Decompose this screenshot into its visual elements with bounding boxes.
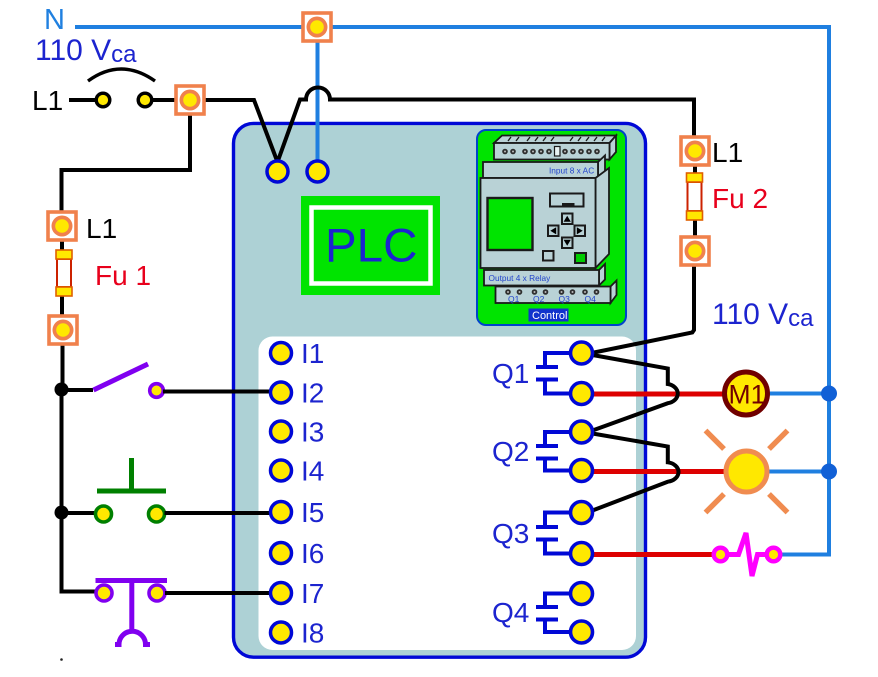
terminal D below Fu1: [49, 316, 77, 344]
terminal B after breaker: [176, 86, 204, 114]
device Control badge: [529, 309, 569, 322]
svg-text:I7: I7: [301, 578, 324, 609]
wire terminal C to fuse Fu1: [60, 240, 64, 252]
svg-text:I5: I5: [301, 497, 324, 528]
svg-text:Fu 2: Fu 2: [712, 183, 768, 214]
wire terminal D down left bus: [62, 344, 97, 592]
toggle switch blade purple: [94, 364, 149, 390]
device bottom terminal block: [611, 281, 617, 304]
svg-text:Q4: Q4: [585, 294, 597, 304]
PLC device drawing: [481, 136, 617, 304]
wire red Q2 to lamp: [592, 469, 727, 474]
svg-text:Q2: Q2: [533, 294, 545, 304]
wire chain Q1 to Q2 with hop over red: [593, 355, 678, 431]
device top face ticks: [508, 137, 605, 141]
limit switch purple: [96, 581, 168, 645]
wire chain Q2 to Q3 with hop over red: [593, 434, 679, 511]
PLC top input terminal 2: [307, 161, 328, 182]
device top terminal block top face: [494, 136, 616, 144]
svg-text:Output 4 x Relay: Output 4 x Relay: [489, 273, 552, 283]
wire blue stub M1 to N bus: [768, 392, 829, 396]
wire red Q1 to motor M1: [592, 392, 726, 397]
device arrow buttons: [548, 214, 585, 249]
wire junction to toggle switch: [62, 388, 94, 392]
node junction dot toggle branch: [55, 383, 69, 397]
toggle switch contact circle: [150, 384, 164, 398]
device input band: [598, 156, 605, 179]
wire fuse Fu2 feed down to Q1: [594, 265, 694, 353]
svg-text:Control: Control: [532, 310, 567, 322]
wire pushbutton to input I5: [165, 511, 274, 515]
input terminal I7: [271, 583, 292, 604]
wire L1 stub to breaker: [69, 98, 96, 102]
terminal F below Fu2: [681, 237, 709, 265]
PLC panel inner white terminal area: [259, 337, 637, 651]
wire toggle switch to input I2: [163, 390, 273, 394]
input terminal I5: [271, 502, 292, 523]
wire fuse Fu2 to terminal F: [693, 218, 697, 237]
svg-text:L1: L1: [86, 213, 117, 244]
relay contact Q4: [536, 583, 593, 644]
wire terminal down to fuse branch: [62, 114, 191, 212]
relay contact Q1: [536, 342, 593, 405]
device labels Q1-Q4: [508, 294, 596, 304]
stray dot bottom left: [60, 658, 63, 661]
svg-text:110 Vca: 110 Vca: [712, 298, 814, 332]
device slot panel: [550, 194, 584, 207]
svg-text:Q3: Q3: [492, 518, 529, 549]
svg-text:L1: L1: [712, 137, 743, 168]
breaker contact circles L1: [96, 93, 110, 107]
device top slot: [555, 147, 561, 157]
wire N line blue: [75, 27, 829, 555]
wire breaker to terminal: [151, 98, 175, 102]
device screen: [488, 198, 533, 250]
svg-text:Fu 1: Fu 1: [95, 260, 151, 291]
svg-text:I3: I3: [301, 417, 324, 448]
wire blue drop from N terminal to PLC top input: [316, 29, 320, 163]
svg-text:PLC: PLC: [325, 220, 417, 273]
buzzer: [714, 533, 781, 576]
device top screws: [502, 149, 600, 155]
wire junction to pushbutton: [62, 511, 97, 515]
svg-text:Q3: Q3: [559, 294, 571, 304]
svg-text:I4: I4: [301, 456, 324, 487]
PLC panel body: [234, 123, 646, 657]
wire limit switch to input I7: [165, 591, 273, 595]
svg-text:I6: I6: [301, 538, 324, 569]
input terminal I4: [271, 460, 292, 481]
node junction dot on N bus at M1 row: [821, 386, 837, 402]
wire blue stub lamp to N bus: [766, 470, 829, 474]
device bottom screws: [505, 289, 599, 295]
lamp: [706, 431, 788, 513]
input terminal I1: [271, 343, 292, 364]
node junction dot on N bus at lamp row: [821, 464, 837, 480]
svg-text:I2: I2: [301, 378, 324, 409]
svg-text:Q2: Q2: [492, 436, 529, 467]
terminal E above Fu2: [681, 137, 709, 165]
motor M1: [725, 372, 768, 415]
svg-text:Input 8 x AC: Input 8 x AC: [549, 166, 594, 176]
node junction dot pushbutton branch: [55, 506, 69, 520]
svg-text:Q1: Q1: [508, 294, 520, 304]
terminal C above Fu1: [48, 212, 76, 240]
breaker arc: [88, 69, 155, 81]
svg-text:Q4: Q4: [492, 597, 529, 628]
device output band: [599, 264, 605, 286]
PLC top input terminal 1: [267, 161, 288, 182]
wire red Q3 to buzzer: [592, 552, 714, 557]
svg-text:110 Vca: 110 Vca: [35, 34, 137, 68]
fuse Fu2: [687, 173, 703, 220]
svg-text:Q1: Q1: [492, 358, 529, 389]
svg-text:I1: I1: [301, 338, 324, 369]
input terminal I6: [271, 543, 292, 564]
terminal A on N line: [303, 13, 331, 41]
input terminal I8: [271, 622, 292, 643]
fuse Fu1: [56, 250, 72, 296]
pushbutton NO green: [96, 458, 167, 522]
PLC green label box: [301, 196, 440, 295]
svg-text:I8: I8: [301, 618, 324, 649]
PLC controller image green background: [477, 130, 626, 325]
svg-text:N: N: [44, 4, 65, 36]
svg-text:M1: M1: [729, 380, 766, 410]
input terminal I2: [271, 382, 292, 403]
input terminal I3: [271, 421, 292, 442]
device main body: [596, 168, 610, 268]
svg-text:L1: L1: [32, 85, 63, 116]
wire fuse Fu1 to terminal D: [60, 294, 64, 316]
wire terminal E to fuse Fu2: [693, 165, 697, 175]
relay contact Q3: [536, 502, 593, 565]
wire terminal to PLC input 1 with hop over blue wire: [205, 88, 694, 163]
device small keys: [543, 251, 554, 261]
relay contact Q2: [536, 421, 593, 482]
